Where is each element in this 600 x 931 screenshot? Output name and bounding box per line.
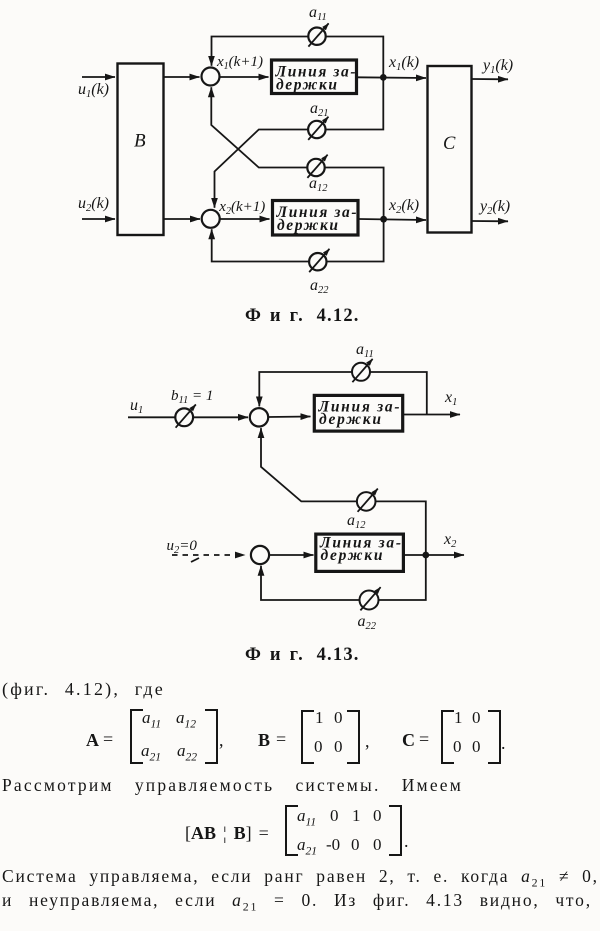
svg-text:u1(k): u1(k) (78, 81, 109, 100)
wire a22 feedback loop (261, 555, 426, 600)
matrix AB B (285, 805, 402, 856)
svg-text:a12: a12 (309, 175, 328, 194)
equation [AB:B] (185, 823, 269, 844)
label x1 (444, 389, 457, 408)
svg-text:u2(k): u2(k) (78, 195, 109, 214)
svg-text:a11: a11 (356, 341, 374, 360)
svg-text:u2=0: u2=0 (167, 538, 198, 556)
wire S1 to delay line 1 (220, 76, 269, 78)
block B (118, 64, 164, 236)
node x2(k) (380, 216, 387, 223)
wire input u1 (128, 416, 248, 418)
label u1 (130, 397, 143, 416)
gain a12 (357, 489, 378, 512)
wire B to sum S2 (164, 218, 201, 220)
matrix A (130, 709, 218, 764)
wire a21 cross path from node x1 to S2 (215, 77, 384, 208)
text line: и неуправляема... (2, 890, 592, 911)
label a22 (358, 613, 377, 632)
wire delay2 to block C (359, 219, 426, 220)
label a11 (309, 4, 327, 23)
gain a12 (307, 155, 327, 178)
svg-text:x2: x2 (443, 531, 457, 550)
gain a22 (360, 587, 381, 610)
svg-text:держки: держки (321, 547, 383, 564)
label y2(k) (478, 198, 510, 217)
node x2 (422, 552, 429, 559)
summing junction S1 (202, 68, 220, 86)
node x1(k) (380, 74, 387, 81)
wire B to sum S1 (164, 76, 200, 78)
wire delay1 to block C (358, 76, 427, 79)
figure 4.13 schematic (0, 330, 600, 670)
wire a11 feedback loop (259, 372, 427, 415)
label x2(k+1) (218, 199, 265, 217)
svg-text:a21: a21 (310, 100, 329, 119)
gain b11 value 1 (175, 405, 196, 428)
wire S2 to delay line 2 (269, 554, 313, 556)
caption fig 4.12 (245, 306, 360, 327)
label x1(k+1) (216, 54, 263, 72)
svg-text:a22: a22 (310, 277, 329, 296)
svg-text:y2(k): y2(k) (478, 198, 510, 217)
text line: Рассмотрим управляемость системы. Имеем (2, 775, 463, 796)
matrix C (441, 710, 501, 764)
label a22 (310, 277, 329, 296)
label a11 (356, 341, 374, 360)
wire a12 cross path from node x2 to S1 (211, 87, 383, 219)
wire S1 to delay line 1 (268, 416, 310, 419)
svg-text:держки: держки (276, 77, 337, 94)
svg-text:C: C (443, 134, 456, 154)
delay line block 2 (273, 201, 359, 236)
label a21 (310, 100, 329, 119)
svg-text:x2(k+1): x2(k+1) (218, 199, 265, 217)
svg-text:x2(k): x2(k) (388, 197, 419, 216)
svg-text:x1(k+1): x1(k+1) (216, 54, 263, 72)
wire input u1 (82, 76, 115, 78)
svg-text:держки: держки (277, 217, 338, 234)
summing junction S2 (251, 546, 269, 564)
block C (428, 66, 472, 233)
label u1(k) (78, 81, 109, 100)
delay line block 1 (272, 60, 357, 94)
wire dashed input u2 (172, 555, 245, 562)
svg-text:a11: a11 (309, 4, 327, 23)
label b11 = 1 (171, 388, 213, 406)
svg-text:x1: x1 (444, 389, 457, 408)
wire output y2 (472, 220, 509, 222)
label x2(k) (388, 197, 419, 216)
gain a22 (309, 249, 329, 272)
wire a22 feedback loop (212, 219, 384, 262)
label u2 = 0 (167, 538, 198, 556)
summing junction S2 (202, 210, 220, 228)
svg-text:b11 = 1: b11 = 1 (171, 388, 213, 406)
svg-text:x1(k): x1(k) (388, 54, 419, 73)
text line: Система управляема... (2, 866, 599, 887)
svg-text:a12: a12 (347, 512, 366, 531)
delay line block 2 (316, 534, 404, 571)
matrix B (301, 710, 360, 764)
svg-text:u1: u1 (130, 397, 143, 416)
svg-text:y1(k): y1(k) (481, 57, 513, 76)
text line: (фиг. 4.12), где (2, 679, 165, 700)
figure 4.12 schematic (0, 0, 600, 330)
label a12 (309, 175, 328, 194)
label x1(k) (388, 54, 419, 73)
caption fig 4.13 (245, 645, 360, 666)
label u2(k) (78, 195, 109, 214)
summing junction S1 (250, 408, 268, 426)
label y1(k) (481, 57, 513, 76)
wire input u2 (82, 218, 115, 220)
gain a11 (352, 359, 373, 382)
svg-text:B: B (134, 131, 146, 152)
wire a11 feedback loop (212, 37, 384, 78)
delay line block 1 (314, 395, 402, 431)
label a12 (347, 512, 366, 531)
gain a21 (308, 117, 328, 140)
wire output y1 (472, 78, 509, 80)
gain a11 (308, 23, 328, 46)
svg-text:держки: держки (319, 411, 381, 428)
equation A B C matrices (86, 730, 99, 751)
wire S2 to delay line 2 (220, 218, 270, 220)
wire output x2 (403, 554, 464, 556)
label x2 (443, 531, 457, 550)
wire a12 path from node x2 to S1 (261, 428, 426, 555)
svg-text:a22: a22 (358, 613, 377, 632)
wire output x1 (403, 414, 460, 416)
